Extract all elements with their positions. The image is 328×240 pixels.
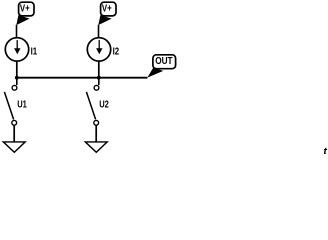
wire switch U2 to ground [95, 125, 97, 142]
svg-text:t: t [323, 145, 327, 154]
wire junction A to switch U1 [16, 78, 18, 85]
ground (branch 2) [85, 142, 107, 152]
svg-text:I2: I2 [113, 45, 120, 56]
junction node A [15, 76, 19, 80]
switch U2 [86, 85, 99, 125]
current source I2 [87, 38, 110, 61]
svg-text:U2: U2 [99, 99, 109, 110]
svg-text:V+: V+ [20, 3, 30, 14]
net flag V+ (branch 1) [16, 2, 34, 25]
svg-text:V+: V+ [102, 3, 112, 14]
junction node B [97, 76, 101, 80]
svg-text:U1: U1 [17, 99, 27, 110]
current source I1 [5, 38, 28, 61]
ground (branch 1) [3, 142, 25, 152]
wire I1 bottom to junction [16, 61, 18, 77]
wire flag V+ to current source I2 [98, 25, 100, 38]
wire switch U1 to ground [13, 125, 15, 142]
wire I2 bottom to junction [98, 61, 100, 77]
svg-text:OUT: OUT [155, 55, 173, 66]
net flag OUT [147, 55, 175, 78]
net flag V+ (branch 2) [98, 2, 116, 25]
wire junction B to switch U2 [98, 78, 100, 85]
switch U1 [4, 85, 17, 125]
svg-text:I1: I1 [31, 45, 38, 56]
horizontal output wire [17, 77, 148, 79]
wire flag V+ to current source I1 [16, 25, 18, 38]
